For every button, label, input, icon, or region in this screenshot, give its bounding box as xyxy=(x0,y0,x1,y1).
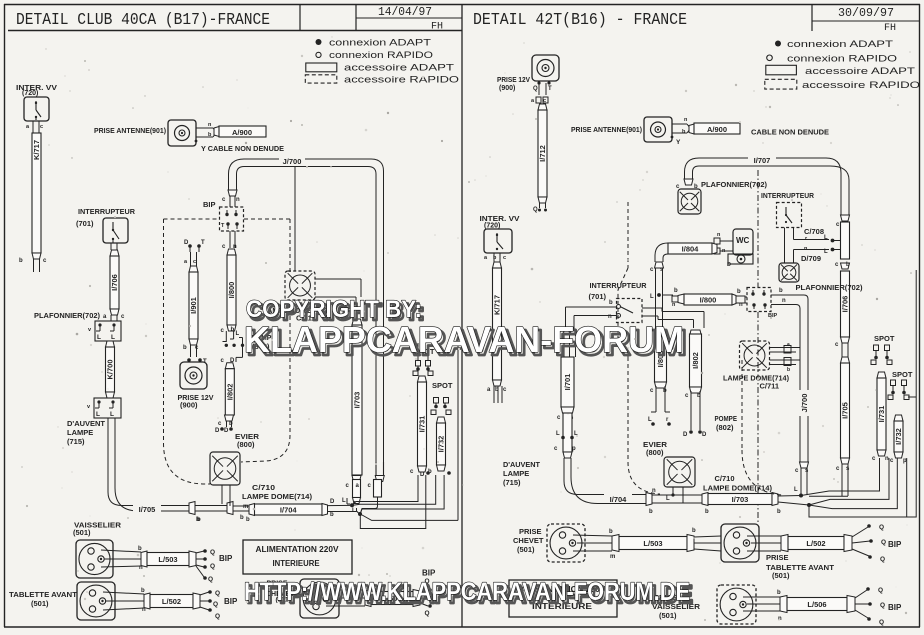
wire from J/700 to C/711 left xyxy=(294,167,296,272)
svg-text:I/701: I/701 xyxy=(563,374,572,391)
svg-text:Q: Q xyxy=(880,556,885,563)
svg-text:p: p xyxy=(572,446,576,452)
svg-text:c: c xyxy=(503,255,506,261)
svg-text:n: n xyxy=(236,197,240,203)
dashed accessoire-RAPIDO region (left) xyxy=(164,218,220,220)
svg-text:D: D xyxy=(224,428,229,434)
wire I/804 right xyxy=(655,243,668,262)
svg-text:Q: Q xyxy=(208,576,213,583)
svg-text:a: a xyxy=(787,342,790,348)
svg-text:C/708: C/708 xyxy=(804,227,824,236)
svg-text:C/711: C/711 xyxy=(760,382,780,391)
svg-text:BIP: BIP xyxy=(888,603,902,612)
svg-text:L: L xyxy=(666,496,670,502)
lavatory lamp WC right xyxy=(733,229,753,255)
svg-text:p: p xyxy=(903,458,907,464)
svg-text:HTTP://WWW.KLAPPCARAVAN-FORUM.: HTTP://WWW.KLAPPCARAVAN-FORUM.DE xyxy=(244,578,690,606)
svg-text:Q: Q xyxy=(533,207,538,213)
svg-text:connexion ADAPT: connexion ADAPT xyxy=(787,39,893,50)
svg-text:PLAFONNIER(702): PLAFONNIER(702) xyxy=(796,283,864,292)
svg-text:I/705: I/705 xyxy=(841,402,850,419)
svg-text:m: m xyxy=(243,504,248,510)
svg-text:Q: Q xyxy=(533,86,538,92)
svg-text:L: L xyxy=(96,411,100,418)
svg-text:D: D xyxy=(727,262,731,268)
svg-text:I/804: I/804 xyxy=(682,244,700,253)
svg-text:Q: Q xyxy=(880,602,885,609)
svg-text:FH: FH xyxy=(884,23,896,34)
svg-text:I/732: I/732 xyxy=(894,428,903,445)
wire I/703 left xyxy=(352,319,362,325)
legend accessoire RAPIDO (left) xyxy=(305,75,337,83)
svg-text:(900): (900) xyxy=(180,401,198,410)
svg-text:I/707: I/707 xyxy=(754,156,771,165)
svg-text:accessoire ADAPT: accessoire ADAPT xyxy=(805,66,915,77)
box ALIMENTATION 220V INTERIEURE right xyxy=(509,580,617,617)
svg-text:KLAPPCARAVAN-FORUM: KLAPPCARAVAN-FORUM xyxy=(244,319,684,360)
junction node left bottom xyxy=(353,501,355,504)
svg-text:b: b xyxy=(705,509,709,515)
svg-text:PRISE ANTENNE(901): PRISE ANTENNE(901) xyxy=(94,126,166,135)
svg-text:I/731: I/731 xyxy=(418,416,427,433)
svg-text:D: D xyxy=(702,432,707,438)
svg-text:I/732: I/732 xyxy=(437,436,446,453)
svg-text:(701): (701) xyxy=(76,219,94,228)
svg-text:D'AUVENT: D'AUVENT xyxy=(503,460,540,469)
svg-text:30/09/97: 30/09/97 xyxy=(838,7,894,20)
svg-text:b: b xyxy=(609,529,613,535)
ceiling lamp D/709 PLAFONNIER(702) right xyxy=(779,263,799,282)
wire K/717 right xyxy=(493,262,502,268)
svg-text:D: D xyxy=(420,472,425,478)
title box left xyxy=(8,30,462,32)
svg-text:D: D xyxy=(683,432,688,438)
svg-text:L: L xyxy=(648,417,652,423)
svg-text:L: L xyxy=(352,508,356,514)
svg-text:K/700: K/700 xyxy=(106,359,115,379)
svg-text:n: n xyxy=(885,456,889,462)
svg-text:L/503: L/503 xyxy=(158,555,177,564)
svg-text:Q: Q xyxy=(879,524,884,531)
svg-text:Q: Q xyxy=(879,619,884,626)
svg-text:LAMPE DOME(714): LAMPE DOME(714) xyxy=(723,374,789,383)
svg-text:C/710: C/710 xyxy=(715,474,735,483)
svg-text:b: b xyxy=(19,258,23,264)
junction node right bottom xyxy=(778,495,801,498)
cable L/503 right xyxy=(612,535,619,552)
svg-text:(701): (701) xyxy=(589,292,607,301)
svg-text:PRISE ANTENNE(901): PRISE ANTENNE(901) xyxy=(571,125,642,134)
wire I/800 left xyxy=(229,231,231,248)
svg-text:I/704: I/704 xyxy=(610,495,628,504)
wire I/802 right xyxy=(690,330,702,336)
cable L/500 left xyxy=(365,590,371,607)
legend connexion ADAPT (left) xyxy=(316,39,322,45)
ceiling lamp PLAFONNIER(702) right-top xyxy=(684,179,693,185)
svg-text:b: b xyxy=(183,345,187,351)
svg-text:14/04/97: 14/04/97 xyxy=(378,6,432,19)
svg-text:CHEVET: CHEVET xyxy=(513,536,544,545)
svg-text:L: L xyxy=(794,487,798,493)
svg-text:LAMPE: LAMPE xyxy=(67,428,93,437)
svg-text:b: b xyxy=(240,515,244,521)
svg-text:c: c xyxy=(40,124,43,130)
svg-text:L: L xyxy=(824,235,828,241)
svg-text:PRISE 12V: PRISE 12V xyxy=(497,77,530,84)
svg-text:BIP: BIP xyxy=(768,313,778,319)
svg-text:b: b xyxy=(777,509,781,515)
svg-text:b: b xyxy=(246,517,250,523)
svg-text:n: n xyxy=(739,302,743,308)
svg-text:DETAIL CLUB 40CA (B17)-FRANCE: DETAIL CLUB 40CA (B17)-FRANCE xyxy=(16,11,270,30)
dashed accessoire-RAPIDO region (right) xyxy=(741,360,743,450)
dome lamp C/710 LAMPE DOME(714) right xyxy=(664,457,695,487)
svg-text:BIP: BIP xyxy=(203,200,216,209)
wire J/700 right xyxy=(771,294,804,296)
svg-text:m: m xyxy=(610,554,615,560)
svg-text:L/506: L/506 xyxy=(807,600,826,609)
svg-text:(800): (800) xyxy=(646,448,664,457)
svg-text:I/706: I/706 xyxy=(841,296,850,313)
svg-text:SPOT: SPOT xyxy=(432,381,453,390)
scan noise speckles xyxy=(301,124,303,126)
svg-text:L/502: L/502 xyxy=(162,597,181,606)
svg-text:b: b xyxy=(138,546,142,552)
svg-text:b: b xyxy=(609,300,613,306)
svg-text:J/700: J/700 xyxy=(800,394,809,413)
svg-text:A/900: A/900 xyxy=(707,125,727,134)
svg-text:Q: Q xyxy=(215,590,220,597)
svg-text:b: b xyxy=(737,289,741,295)
svg-text:D: D xyxy=(215,428,220,434)
svg-text:Q: Q xyxy=(213,601,218,608)
svg-text:connexion RAPIDO: connexion RAPIDO xyxy=(329,50,433,61)
svg-text:LAMPE: LAMPE xyxy=(503,469,529,478)
wires C/711 to I/703 left xyxy=(315,278,361,280)
svg-text:(802): (802) xyxy=(716,423,734,432)
svg-text:I/800: I/800 xyxy=(700,295,717,304)
dome lamp C/711 LAMPE DOME(714) right xyxy=(740,341,770,370)
svg-text:LAMPE DOME(714): LAMPE DOME(714) xyxy=(242,492,313,501)
wire I/712 right xyxy=(538,104,547,110)
svg-text:I/703: I/703 xyxy=(732,495,749,504)
legend connexion RAPIDO (right) xyxy=(767,55,773,61)
svg-text:DETAIL 42T(B16) - FRANCE: DETAIL 42T(B16) - FRANCE xyxy=(473,11,687,30)
wire I/707 loop right half xyxy=(699,158,841,215)
svg-text:b: b xyxy=(649,509,653,515)
svg-text:b: b xyxy=(674,288,678,294)
socket PRISE 12V (900) left xyxy=(180,362,207,389)
svg-text:T: T xyxy=(201,240,205,246)
svg-text:CABLE NON DENUDE: CABLE NON DENUDE xyxy=(751,128,829,137)
cable A/900 right xyxy=(689,124,694,134)
svg-text:accessoire RAPIDO: accessoire RAPIDO xyxy=(344,74,459,85)
svg-text:Q: Q xyxy=(881,539,886,546)
svg-text:FH: FH xyxy=(431,22,443,33)
svg-text:PRISE: PRISE xyxy=(519,527,542,536)
wire I/901 left xyxy=(188,244,192,248)
wire I/731 right xyxy=(877,372,886,378)
wire I/706 left xyxy=(110,250,119,256)
socket PRISE 12V (900) right-top xyxy=(532,55,559,81)
svg-text:(501): (501) xyxy=(772,571,790,580)
wire I/703 right xyxy=(708,494,772,505)
wire bundle to spots left xyxy=(360,497,377,514)
svg-text:L: L xyxy=(111,334,115,341)
svg-text:Q: Q xyxy=(215,613,220,620)
svg-text:c: c xyxy=(193,259,196,265)
svg-text:T: T xyxy=(548,86,552,92)
legend connexion RAPIDO (left) xyxy=(316,52,321,57)
dome lamp C/710 LAMPE DOME(714) left xyxy=(210,452,240,485)
svg-text:I/703: I/703 xyxy=(353,392,362,409)
svg-text:TABLETTE AVANT: TABLETTE AVANT xyxy=(9,590,77,599)
svg-text:I/704: I/704 xyxy=(280,505,298,514)
svg-text:D: D xyxy=(184,240,189,246)
svg-text:Q: Q xyxy=(425,610,430,617)
node D D to EVIER left xyxy=(220,427,224,431)
border frame xyxy=(4,4,920,6)
awning lamp D'AUVENT connectors left xyxy=(94,398,121,418)
cable A/900 left xyxy=(214,127,219,137)
dashed region boundary right xyxy=(627,202,629,268)
svg-text:BIP: BIP xyxy=(422,569,436,578)
svg-text:BIP: BIP xyxy=(219,554,233,563)
wire I/701 right xyxy=(563,329,570,335)
cable L/503 left xyxy=(101,550,141,552)
wire I/731 left xyxy=(418,376,427,382)
svg-text:(900): (900) xyxy=(499,85,515,92)
svg-text:INTERIEURE: INTERIEURE xyxy=(273,559,321,568)
svg-text:b: b xyxy=(330,512,334,518)
svg-text:Q: Q xyxy=(210,549,215,556)
svg-text:WC: WC xyxy=(736,236,750,245)
svg-text:I/901: I/901 xyxy=(189,297,198,314)
wire to pump junction right xyxy=(655,268,657,330)
wire I/706 right xyxy=(841,215,850,221)
svg-text:ALIMENTATION 220V: ALIMENTATION 220V xyxy=(256,545,340,554)
svg-text:D: D xyxy=(330,499,335,505)
svg-text:(715): (715) xyxy=(503,478,521,487)
wires from switch to pump right xyxy=(642,307,662,309)
svg-text:J/700: J/700 xyxy=(283,157,302,166)
wire K/700 left xyxy=(106,341,115,347)
svg-text:SPOT: SPOT xyxy=(892,370,913,379)
svg-text:I/800: I/800 xyxy=(227,282,236,299)
dome lamp C/711 LAMPE DOME(714) left xyxy=(285,271,315,300)
svg-text:I/705: I/705 xyxy=(139,505,156,514)
wire from right margin left half xyxy=(457,346,459,520)
axis dash-dot line right xyxy=(757,170,759,287)
svg-text:(501): (501) xyxy=(73,528,91,537)
svg-text:L: L xyxy=(97,334,101,341)
svg-text:L: L xyxy=(110,411,114,418)
cable L/502 right xyxy=(781,535,788,552)
svg-text:accessoire RAPIDO: accessoire RAPIDO xyxy=(802,80,920,91)
svg-text:A/900: A/900 xyxy=(232,128,252,137)
svg-text:I/712: I/712 xyxy=(538,145,547,162)
wire J/700 lower end left xyxy=(375,462,377,475)
svg-text:b: b xyxy=(777,590,781,596)
wire I/704 right xyxy=(564,458,646,495)
svg-text:L: L xyxy=(342,498,346,504)
svg-text:L: L xyxy=(824,249,828,255)
svg-text:(501): (501) xyxy=(517,545,535,554)
wire K/717 left xyxy=(32,133,41,253)
svg-text:b: b xyxy=(779,288,783,294)
wire I/705 left xyxy=(108,418,189,506)
svg-text:BIP: BIP xyxy=(224,597,238,606)
svg-text:(501): (501) xyxy=(659,611,677,620)
svg-text:b: b xyxy=(692,528,696,534)
svg-text:PLAFONNIER(702): PLAFONNIER(702) xyxy=(34,311,100,320)
svg-text:INTERRUPTEUR: INTERRUPTEUR xyxy=(761,191,815,200)
cable L/506 right xyxy=(780,596,787,613)
svg-text:C/710: C/710 xyxy=(252,483,275,492)
svg-text:n: n xyxy=(778,616,782,622)
wire I/704 left xyxy=(249,504,255,516)
svg-text:connexion RAPIDO: connexion RAPIDO xyxy=(787,53,897,64)
svg-text:LAMPE DOME(714): LAMPE DOME(714) xyxy=(703,484,773,493)
svg-text:b: b xyxy=(787,367,790,373)
sink wires EVIER (800) right xyxy=(655,330,657,336)
wire I/705 right xyxy=(841,343,843,357)
svg-text:K/717: K/717 xyxy=(493,295,502,315)
svg-text:D/709: D/709 xyxy=(801,254,821,263)
svg-text:L/503: L/503 xyxy=(643,539,662,548)
svg-text:b: b xyxy=(141,588,145,594)
svg-text:L/502: L/502 xyxy=(806,539,825,548)
svg-text:(501): (501) xyxy=(31,599,49,608)
svg-text:(720): (720) xyxy=(22,90,38,97)
svg-text:(715): (715) xyxy=(67,437,85,446)
svg-text:Q: Q xyxy=(878,587,883,594)
svg-text:D'AUVENT: D'AUVENT xyxy=(67,419,105,428)
legend accessoire ADAPT (left) xyxy=(306,63,337,72)
legend accessoire RAPIDO (right) xyxy=(765,79,797,89)
title box right xyxy=(811,4,813,31)
svg-text:I/802: I/802 xyxy=(225,384,234,401)
node BIP (right) xyxy=(747,288,771,312)
wire I/732 left xyxy=(437,417,446,423)
wire I/800 right xyxy=(684,294,732,305)
svg-text:connexion ADAPT: connexion ADAPT xyxy=(329,37,431,48)
legend connexion ADAPT (right) xyxy=(775,41,781,47)
svg-text:SPOT: SPOT xyxy=(874,334,895,343)
svg-text:INTERRUPTEUR: INTERRUPTEUR xyxy=(78,207,136,216)
svg-text:PRISE: PRISE xyxy=(766,553,789,562)
svg-text:L: L xyxy=(556,431,560,437)
svg-text:I/802: I/802 xyxy=(691,352,700,369)
wire I/732 right xyxy=(894,415,903,421)
svg-text:accessoire ADAPT: accessoire ADAPT xyxy=(344,63,454,74)
svg-text:BIP: BIP xyxy=(888,540,902,549)
wire J/700 loop left half xyxy=(244,159,384,462)
svg-text:L: L xyxy=(650,294,654,300)
svg-text:Y: Y xyxy=(676,139,681,146)
socket PRISE TABLETTE AVANT (501) right xyxy=(721,524,759,562)
svg-text:L: L xyxy=(236,331,240,337)
box ALIMENTATION 220V INTERIEURE left xyxy=(243,540,352,574)
legend accessoire ADAPT (right) xyxy=(766,65,797,75)
svg-text:b: b xyxy=(846,262,850,268)
svg-text:Y CABLE NON DENUDE: Y CABLE NON DENUDE xyxy=(201,144,284,153)
svg-text:Q: Q xyxy=(210,563,215,570)
svg-text:n: n xyxy=(782,298,786,304)
svg-text:I/706: I/706 xyxy=(110,274,119,291)
svg-text:I/731: I/731 xyxy=(877,406,886,423)
wire I/802 left xyxy=(225,363,234,369)
wire bundle to spots right xyxy=(809,495,848,497)
svg-text:b: b xyxy=(196,517,200,523)
svg-text:K/717: K/717 xyxy=(32,140,41,160)
svg-text:POMPE: POMPE xyxy=(715,414,738,423)
cable L/502 left xyxy=(103,592,144,594)
svg-text:(800): (800) xyxy=(237,440,255,449)
